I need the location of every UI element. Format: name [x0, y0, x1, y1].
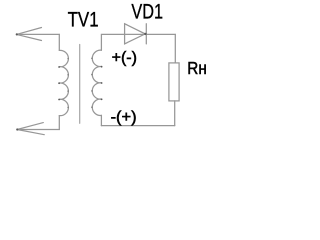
transformer TV1 secondary winding: [92, 50, 101, 115]
wire right vertical top: [174, 34, 176, 63]
secondary winding cusps: [101, 66, 103, 68]
input arrow bottom: [17, 123, 44, 135]
node: bottom arrow tip: [16, 128, 18, 130]
resistor RH body: [169, 63, 179, 101]
wire secondary top terminal: [101, 34, 175, 50]
node: top arrow tip: [16, 33, 18, 35]
diode VD1 triangle: [125, 24, 147, 44]
wire bottom right: [101, 125, 174, 127]
wire secondary bottom terminal: [100, 115, 102, 125]
wire right vertical bottom: [174, 101, 176, 126]
junction dots: [16, 33, 147, 131]
svg-text:VD1: VD1: [131, 0, 163, 24]
svg-text:+(-): +(-): [112, 49, 137, 66]
svg-text:-(+): -(+): [111, 109, 137, 126]
transformer core: [79, 45, 81, 124]
wire top-left: [17, 33, 60, 35]
svg-text:Rн: Rн: [187, 58, 207, 78]
svg-text:TV1: TV1: [68, 8, 99, 32]
wire primary top terminal: [58, 34, 60, 50]
secondary bump extremes: [91, 58, 93, 60]
node: diode apex junction: [144, 33, 146, 35]
wire primary bottom terminal: [58, 116, 60, 130]
wire bottom-left: [17, 129, 59, 131]
transformer TV1 primary winding: [59, 50, 68, 115]
input arrow top: [17, 28, 42, 41]
primary bump extremes: [67, 58, 69, 60]
primary winding cusps: [58, 66, 60, 68]
